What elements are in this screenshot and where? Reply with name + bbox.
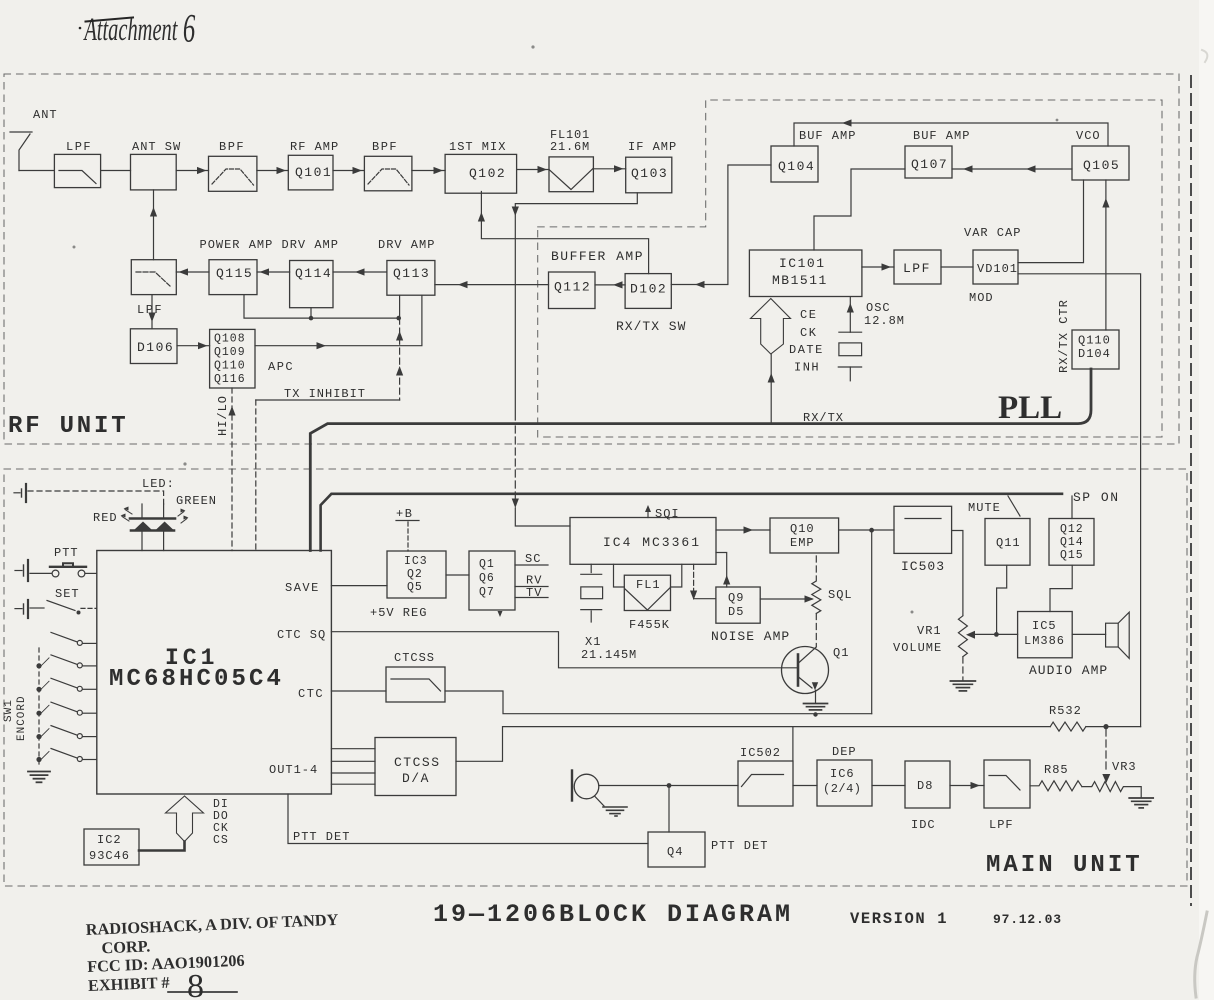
filter IC503: [894, 506, 952, 553]
svg-text:Q116: Q116: [214, 373, 246, 386]
svg-text:CTC SQ: CTC SQ: [277, 628, 326, 642]
label TX INHIBIT + wire: [256, 399, 400, 401]
wire IC502 to IC6: [793, 785, 817, 787]
filter BPF (2nd): [364, 156, 412, 191]
wire Q103 down to IC4 (IF signal): [515, 193, 637, 420]
svg-text:VD101: VD101: [977, 262, 1018, 276]
label ENCORD (rotated): [16, 695, 28, 741]
switch ANT SW: [131, 154, 177, 190]
svg-text:BPF: BPF: [219, 140, 245, 154]
svg-text:VR3: VR3: [1112, 760, 1137, 774]
MAIN UNIT dashed border: [4, 469, 1187, 886]
svg-text:D/A: D/A: [402, 771, 430, 786]
svg-text:12.8M: 12.8M: [864, 314, 905, 328]
svg-text:CTCSS: CTCSS: [394, 755, 441, 770]
wire ant to LPF: [19, 170, 54, 172]
wire Q102 to D102 (rx inject): [481, 192, 648, 274]
svg-text:MB1511: MB1511: [772, 273, 828, 288]
wire wiper to IC5: [974, 633, 1018, 635]
svg-text:Q112: Q112: [554, 280, 591, 295]
wire IC6 to D8: [872, 785, 905, 787]
wire HI/LO from APC down to IC1 (dashed): [231, 388, 233, 551]
svg-text:IC101: IC101: [779, 256, 826, 271]
svg-text:TX INHIBIT: TX INHIBIT: [284, 387, 366, 401]
crystal OSC 12.8M: [849, 297, 851, 333]
bus wire for switch bank (dash): [38, 648, 40, 768]
switch block Q1 Q6 Q7: [469, 551, 515, 610]
wire Q105 to Q107: [952, 168, 1072, 170]
wire IC4 to FL1 right: [671, 564, 682, 587]
amp Q114 DRV AMP: [290, 261, 333, 308]
wire TX INHIBIT down to IC1 (dashed): [255, 400, 257, 551]
wire Q115 to LPF2: [176, 271, 209, 273]
svg-text:IC4 MC3361: IC4 MC3361: [603, 535, 701, 550]
svg-text:X1: X1: [585, 635, 601, 649]
junction dot (audio tap): [869, 528, 874, 533]
wire Q12 block to IC5: [1050, 565, 1072, 611]
wire SAVE IC1 to IC3: [331, 585, 387, 587]
svg-text:SP ON: SP ON: [1073, 490, 1120, 505]
svg-text:VAR CAP: VAR CAP: [964, 226, 1021, 240]
svg-text:LED:: LED:: [142, 477, 175, 491]
filter LPF (pll): [894, 250, 941, 284]
hollow arrow into IC1 bottom (eeprom bus): [166, 796, 204, 842]
svg-text:SQI: SQI: [655, 507, 680, 521]
handwritten Attachment 6: [83, 7, 196, 51]
svg-text:BUF AMP: BUF AMP: [913, 129, 970, 143]
svg-text:Q14: Q14: [1060, 536, 1084, 549]
wire D102 to Q112: [595, 284, 625, 286]
svg-text:VOLUME: VOLUME: [893, 641, 942, 655]
svg-text:Q1: Q1: [833, 646, 849, 660]
pot SQL: [815, 556, 817, 580]
svg-text:Q113: Q113: [393, 266, 430, 281]
svg-text:PTT DET: PTT DET: [293, 830, 350, 844]
svg-text:F455K: F455K: [629, 618, 670, 632]
junction dot (wiper node): [994, 632, 999, 637]
wire VCO top to Q104: [794, 123, 1108, 146]
wire Q104 to D102: [671, 165, 771, 285]
svg-text:POWER AMP DRV AMP: POWER AMP DRV AMP: [200, 238, 339, 252]
svg-text:LPF: LPF: [903, 261, 931, 276]
wire IC5 to speaker: [1072, 633, 1105, 635]
svg-text:R85: R85: [1044, 763, 1069, 777]
svg-text:19—1206BLOCK DIAGRAM: 19—1206BLOCK DIAGRAM: [433, 900, 793, 929]
svg-text:GREEN: GREEN: [176, 494, 217, 508]
wire CTC IC1 to CTCSS: [331, 690, 386, 692]
pot VR1 VOLUME: [958, 616, 967, 657]
svg-text:INH: INH: [794, 361, 820, 375]
svg-text:Q6: Q6: [479, 572, 495, 585]
svg-text:CTCSS: CTCSS: [394, 651, 435, 665]
svg-text:97.12.03: 97.12.03: [993, 912, 1062, 927]
svg-text:MUTE: MUTE: [968, 501, 1001, 515]
svg-text:SQL: SQL: [828, 588, 853, 602]
ground (Q1 emitter): [815, 690, 817, 703]
svg-text:D106: D106: [137, 340, 174, 355]
switch SET: [30, 607, 44, 609]
svg-text:ANT: ANT: [33, 108, 58, 122]
wire RX/TX up into hollow arrow: [770, 355, 772, 423]
svg-text:APC: APC: [268, 360, 294, 374]
svg-text:BUFFER AMP: BUFFER AMP: [551, 249, 644, 264]
regulator IC3 Q2 Q5: [387, 551, 446, 598]
pot VR3: [1082, 782, 1141, 798]
label SW1 (rotated): [3, 699, 15, 722]
wire PTT DET from IC1: [288, 794, 648, 844]
wire Q110 up to Q105: [1105, 180, 1107, 330]
filter CTCSS: [386, 667, 445, 702]
wire D8 to LPF: [950, 785, 984, 787]
mixer Q102 1ST MIX: [445, 154, 516, 193]
svg-text:RX/TX SW: RX/TX SW: [616, 319, 686, 334]
svg-text:MOD: MOD: [969, 291, 994, 305]
eeprom IC2 93C46: [84, 829, 139, 865]
svg-text:TV: TV: [526, 586, 542, 600]
wire Q112 to Q113: [435, 284, 549, 286]
svg-text:8: 8: [187, 968, 204, 1000]
svg-text:D8: D8: [917, 779, 933, 793]
dac CTCSS D/A: [375, 738, 456, 796]
svg-text:Q7: Q7: [479, 586, 495, 599]
wire FL101 to Q103: [593, 168, 625, 170]
wire mic to IC502: [599, 785, 738, 787]
wire +B to IC3 (dash): [407, 522, 409, 551]
svg-text:+5V REG: +5V REG: [370, 606, 427, 620]
svg-text:Q5: Q5: [407, 581, 423, 594]
wire Q101 to BPF2: [333, 170, 364, 172]
svg-text:SAVE: SAVE: [285, 581, 320, 595]
svg-text:DEP: DEP: [832, 745, 857, 759]
wire ANT SW to BPF: [176, 170, 208, 172]
wire IC101 to LPF: [862, 266, 894, 268]
svg-text:21.6M: 21.6M: [550, 140, 590, 154]
svg-text:+B: +B: [396, 507, 413, 521]
hollow arrow into IC101 (data bus): [751, 299, 791, 355]
PLL / buffer dashed border: [538, 100, 1162, 437]
thick SP ON line: [321, 494, 1062, 551]
wire Q113 to TX INHIBIT (dashed): [399, 318, 401, 400]
wire SP line to Q11 (diagonal): [1008, 496, 1020, 516]
svg-text:RF UNIT: RF UNIT: [8, 413, 128, 440]
svg-text:OUT1-4: OUT1-4: [269, 763, 318, 777]
svg-text:FL1: FL1: [636, 578, 661, 592]
resistor R85: [1030, 781, 1082, 791]
svg-text:EMP: EMP: [790, 536, 815, 550]
svg-text:LPF: LPF: [989, 818, 1014, 832]
wire Q114 to Q115: [257, 271, 290, 273]
led RED+GREEN pair: [141, 504, 143, 518]
resistor R532: [1050, 722, 1086, 731]
amp Q10 EMP: [770, 518, 839, 553]
wire Q10 to IC503: [839, 529, 894, 531]
filter LPF (rx front): [54, 154, 100, 187]
svg-text:HI/LO: HI/LO: [216, 395, 230, 436]
wire BPF2 to Q102: [412, 170, 445, 172]
transistor Q1 (squelch switch): [782, 647, 829, 694]
ceramic filter FL1 F455K: [624, 575, 670, 610]
svg-text:MAIN UNIT: MAIN UNIT: [986, 852, 1143, 879]
wire BPF to Q101: [257, 170, 288, 172]
amp Q112 buffer: [549, 272, 596, 309]
svg-text:CS: CS: [213, 834, 229, 847]
svg-text:Q1: Q1: [479, 558, 495, 571]
svg-text:Q12: Q12: [1060, 523, 1084, 536]
compressor IC6 (2/4) DEP: [817, 760, 872, 806]
fm if chip IC4 MC3361: [570, 518, 716, 565]
footer FCC text block: [85, 910, 341, 995]
svg-text:Q108: Q108: [214, 333, 246, 346]
wire LPF to VD101: [941, 266, 973, 268]
amp Q115 POWER AMP: [209, 260, 257, 295]
junction dots on feedback rail: [309, 316, 314, 321]
wire R532 to corner: [1086, 726, 1141, 728]
svg-text:EXHIBIT #: EXHIBIT #: [88, 973, 170, 995]
svg-text:Q110: Q110: [214, 360, 246, 373]
svg-text:Attachment: Attachment: [83, 11, 179, 47]
wire IC503 to VR1: [952, 531, 963, 616]
svg-text:Q107: Q107: [911, 157, 948, 172]
svg-text:LPF: LPF: [66, 140, 92, 154]
svg-text:D104: D104: [1078, 347, 1111, 361]
ground (VR1): [950, 680, 975, 682]
svg-text:Q9: Q9: [728, 591, 744, 605]
microphone: [574, 774, 599, 799]
svg-text:6: 6: [183, 7, 196, 51]
RF UNIT dashed border: [4, 74, 1179, 444]
svg-text:Q109: Q109: [214, 346, 246, 359]
varactor VD101 VAR CAP: [973, 250, 1018, 284]
wire VD101 MOD line down to R532 node: [1018, 274, 1141, 727]
antenna ANT: [10, 132, 32, 171]
svg-text:VCO: VCO: [1076, 129, 1101, 143]
svg-text:PLL: PLL: [998, 390, 1062, 426]
wire IC4 to Q9 (audio): [693, 564, 695, 590]
wire Q11 to wiper node: [997, 565, 1007, 634]
wire down to VR3 wiper: [1105, 729, 1107, 772]
osc Q105 VCO: [1072, 146, 1129, 180]
svg-text:IC2: IC2: [97, 833, 122, 847]
svg-text:BUF AMP: BUF AMP: [799, 129, 856, 143]
svg-text:Q103: Q103: [631, 166, 668, 181]
amp Q113 DRV AMP: [387, 261, 435, 296]
svg-text:NOISE AMP: NOISE AMP: [711, 629, 790, 644]
switch bank SW1 ENCORD (6 switches): [51, 632, 77, 642]
speaker: [1106, 623, 1119, 647]
wire APC to Q113: [255, 295, 422, 346]
terminal (LED supply): [25, 484, 27, 502]
wire tone line to IC502: [792, 727, 794, 761]
wire IC3 to Q1Q6Q7: [446, 574, 469, 576]
svg-text:VERSION 1: VERSION 1: [850, 910, 948, 928]
svg-text:RF AMP: RF AMP: [290, 140, 339, 154]
junction dot (VR3 tap): [1103, 724, 1108, 729]
amp Q104 BUF AMP: [771, 146, 818, 182]
svg-text:CE: CE: [800, 308, 817, 322]
svg-text:BPF: BPF: [372, 140, 398, 154]
wire D106 to APC: [177, 345, 210, 347]
svg-text:Q4: Q4: [667, 845, 683, 859]
svg-text:DRV AMP: DRV AMP: [378, 238, 435, 252]
wire feedback rail under Q115/Q114/Q113: [244, 295, 400, 319]
wire LPF2 up to ANT SW: [153, 190, 155, 260]
limiter D8 IDC: [905, 761, 950, 808]
svg-text:IC5: IC5: [1032, 619, 1057, 633]
ground (switch bank): [28, 771, 50, 773]
wire CTCSS D/A to tone line: [456, 727, 1050, 762]
junction dot (PTT tap): [667, 783, 672, 788]
label HI/LO (rotated): [216, 395, 230, 436]
svg-text:R532: R532: [1049, 704, 1082, 718]
detector Q4 PTT DET: [648, 832, 705, 867]
wire LPF to ANT SW: [101, 170, 131, 172]
wire mic tap to Q4: [668, 786, 670, 833]
terminal (PTT): [27, 560, 29, 581]
svg-text:Q11: Q11: [996, 536, 1021, 550]
svg-text:MC68HC05C4: MC68HC05C4: [109, 666, 284, 693]
filter BPF (1st): [209, 156, 257, 191]
svg-text:ANT SW: ANT SW: [132, 140, 181, 154]
svg-text:PTT DET: PTT DET: [711, 839, 768, 853]
filter LPF (tx): [131, 260, 176, 295]
svg-text:SC: SC: [525, 552, 541, 566]
paper specks: [73, 45, 1059, 613]
amp Q103 IF AMP: [626, 157, 672, 193]
svg-text:IF AMP: IF AMP: [628, 140, 677, 154]
switch Q110 D104 RX/TX CTR: [1072, 330, 1119, 369]
svg-text:DATE: DATE: [789, 343, 824, 357]
thick RX/TX line: [310, 369, 1091, 551]
block Q108 Q109 Q110 Q116 APC: [210, 329, 255, 388]
crystal X1 21.145M: [590, 564, 592, 572]
wires OUT1-4 from IC1: [331, 748, 375, 750]
wire audio tap down to CTCSS line: [871, 530, 873, 714]
handwritten 8 and underline: [168, 991, 237, 993]
wire SP line to Q12 block: [1071, 496, 1073, 519]
svg-text:RED: RED: [93, 511, 118, 525]
svg-text:IDC: IDC: [911, 818, 936, 832]
svg-text:OSC: OSC: [866, 301, 891, 315]
block Q12 Q14 Q15: [1049, 519, 1094, 566]
switch PTT pushbutton: [30, 572, 52, 574]
filter FL101 21.6M: [549, 157, 593, 192]
led light arrows green: [178, 512, 187, 524]
svg-text:Q105: Q105: [1083, 158, 1120, 173]
svg-text:LM386: LM386: [1024, 634, 1065, 648]
svg-text:Q102: Q102: [469, 166, 506, 181]
svg-text:1ST MIX: 1ST MIX: [449, 140, 506, 154]
amp Q9 D5 NOISE AMP: [716, 587, 760, 623]
wire CTCSS to IC503 line: [445, 691, 872, 714]
wire IC4 to FL1 left: [614, 564, 625, 587]
svg-text:93C46: 93C46: [89, 849, 130, 863]
filter IC502: [738, 761, 793, 806]
filter LPF (tx audio): [984, 760, 1030, 808]
pll chip IC101 MB1511: [749, 250, 862, 297]
wire Q113 to Q114: [333, 271, 387, 273]
ground (VR3): [1129, 797, 1153, 799]
pins SC RV TV: [515, 564, 548, 566]
svg-text:Q101: Q101: [295, 165, 332, 180]
wire Q9 to IC4 (squelch): [716, 553, 727, 588]
svg-text:ENCORD: ENCORD: [16, 695, 28, 741]
svg-text:IC3: IC3: [404, 555, 428, 568]
wire terminal to LEDs (dash): [28, 491, 164, 504]
diode D106: [130, 329, 177, 364]
diode D102 RX/TX SW: [625, 274, 671, 309]
svg-text:IC6: IC6: [830, 767, 855, 781]
wire Q102 to FL101: [517, 169, 549, 171]
amp Q107 BUF AMP: [905, 146, 952, 178]
wire IC4 to Q10: [716, 529, 770, 531]
svg-text:SW1: SW1: [3, 699, 15, 722]
svg-text:Q115: Q115: [216, 266, 253, 281]
wire LPF2 down to D106: [151, 295, 153, 329]
svg-text:D5: D5: [728, 605, 744, 619]
wire VD101 to Q105: [1018, 180, 1084, 263]
svg-text:RX/TX CTR: RX/TX CTR: [1057, 299, 1071, 373]
svg-text:CTC: CTC: [298, 687, 324, 701]
svg-text:D102: D102: [630, 282, 667, 297]
svg-text:PTT: PTT: [54, 546, 79, 560]
wire base of Q1 (CTC SQ route): [331, 632, 798, 668]
scan right edge artifact: [1199, 0, 1214, 1000]
svg-text:(2/4): (2/4): [823, 782, 862, 796]
wire Q9 to SQL pot: [760, 598, 812, 600]
svg-text:SET: SET: [55, 587, 80, 601]
switch Q11 mute: [985, 519, 1030, 566]
svg-text:Q104: Q104: [778, 159, 815, 174]
svg-text:CK: CK: [800, 326, 817, 340]
label RX/TX CTR (rotated): [1057, 299, 1071, 373]
svg-text:RADIOSHACK, A DIV. OF TANDY: RADIOSHACK, A DIV. OF TANDY: [85, 910, 338, 939]
svg-text:Q110: Q110: [1078, 334, 1111, 348]
thick wire IC2 to arrow: [139, 842, 185, 851]
wire Q107 to IC101: [814, 169, 905, 250]
amp IC5 LM386 AUDIO AMP: [1018, 612, 1073, 658]
svg-text:IC503: IC503: [901, 559, 945, 574]
svg-text:Q114: Q114: [295, 266, 332, 281]
mcu IC1 MC68HC05C4 box: [97, 551, 332, 795]
svg-text:Q15: Q15: [1060, 549, 1084, 562]
svg-text:IC502: IC502: [740, 746, 781, 760]
svg-text:AUDIO AMP: AUDIO AMP: [1029, 663, 1108, 678]
amp Q101 RF AMP: [288, 155, 333, 190]
svg-text:21.145M: 21.145M: [581, 648, 637, 662]
pin SQI with arrow: [647, 508, 649, 518]
led light arrows red: [122, 510, 132, 522]
svg-text:Q10: Q10: [790, 522, 815, 536]
svg-text:VR1: VR1: [917, 624, 942, 638]
terminal (SET): [27, 600, 29, 618]
ground (microphone): [595, 797, 604, 807]
svg-text:RX/TX: RX/TX: [803, 411, 844, 425]
svg-text:Q2: Q2: [407, 568, 423, 581]
